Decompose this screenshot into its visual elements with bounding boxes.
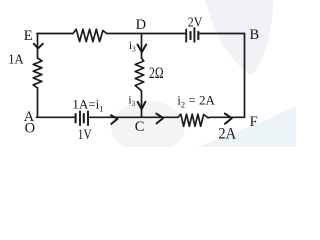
wire battery 2V to corner B [200,33,245,35]
arrow right on bottom wire (C toward R4) [156,114,163,124]
wire battery 1V to C [90,116,142,118]
wire right side B to F [244,34,246,118]
battery B2 1V plate short right [83,114,85,122]
svg-text:2V: 2V [188,15,203,30]
wire top-left E to resistor [37,33,73,35]
svg-text:D: D [136,17,146,33]
wire resistor R4 to F [208,116,245,119]
resistor R2 (left branch, 1A) [33,58,42,88]
arrow i3 down (above C) [138,102,146,109]
resistor R3 2 ohm (middle branch) [135,58,144,90]
arrow i3 down (below D) [138,45,147,53]
arrow right on bottom wire (2A toward F) [225,114,232,124]
battery B1 2V plate short [189,32,191,39]
wire left side E down to resistor [37,34,39,59]
resistor R1 (between E and D) [73,29,107,41]
svg-text:E: E [24,28,33,44]
battery B1 2V plate long right [193,28,195,42]
svg-text:2Ω: 2Ω [149,65,164,82]
svg-text:1A: 1A [8,51,24,66]
wire left resistor down to A [37,88,39,117]
wire resistor to D [107,33,142,35]
arrow right on bottom wire (1A toward C) [111,115,118,124]
battery B2 1V plate short left [75,114,77,122]
svg-text:F: F [250,114,258,130]
wire C to resistor R4 [142,116,179,118]
svg-text:B: B [250,27,260,43]
arrow 1A down (left branch below E) [34,44,43,49]
battery B1 2V plate short right [197,32,199,39]
svg-text:1V: 1V [78,127,92,143]
wire 2ohm down to C [140,90,142,118]
svg-text:C: C [135,119,145,135]
battery B2 1V plate long [79,111,81,125]
wire middle D down to 2ohm [141,34,143,59]
svg-text:2A: 2A [218,126,236,143]
wire bottom A to battery 1V [37,116,75,118]
svg-text:O: O [25,121,35,137]
resistor R4 (bottom right, i2) [178,114,208,126]
battery B1 2V plate long left [185,30,187,42]
svg-text:1A=i1: 1A=i1 [72,96,103,113]
battery B2 1V plate long right [87,111,89,125]
node D junction [142,33,186,35]
